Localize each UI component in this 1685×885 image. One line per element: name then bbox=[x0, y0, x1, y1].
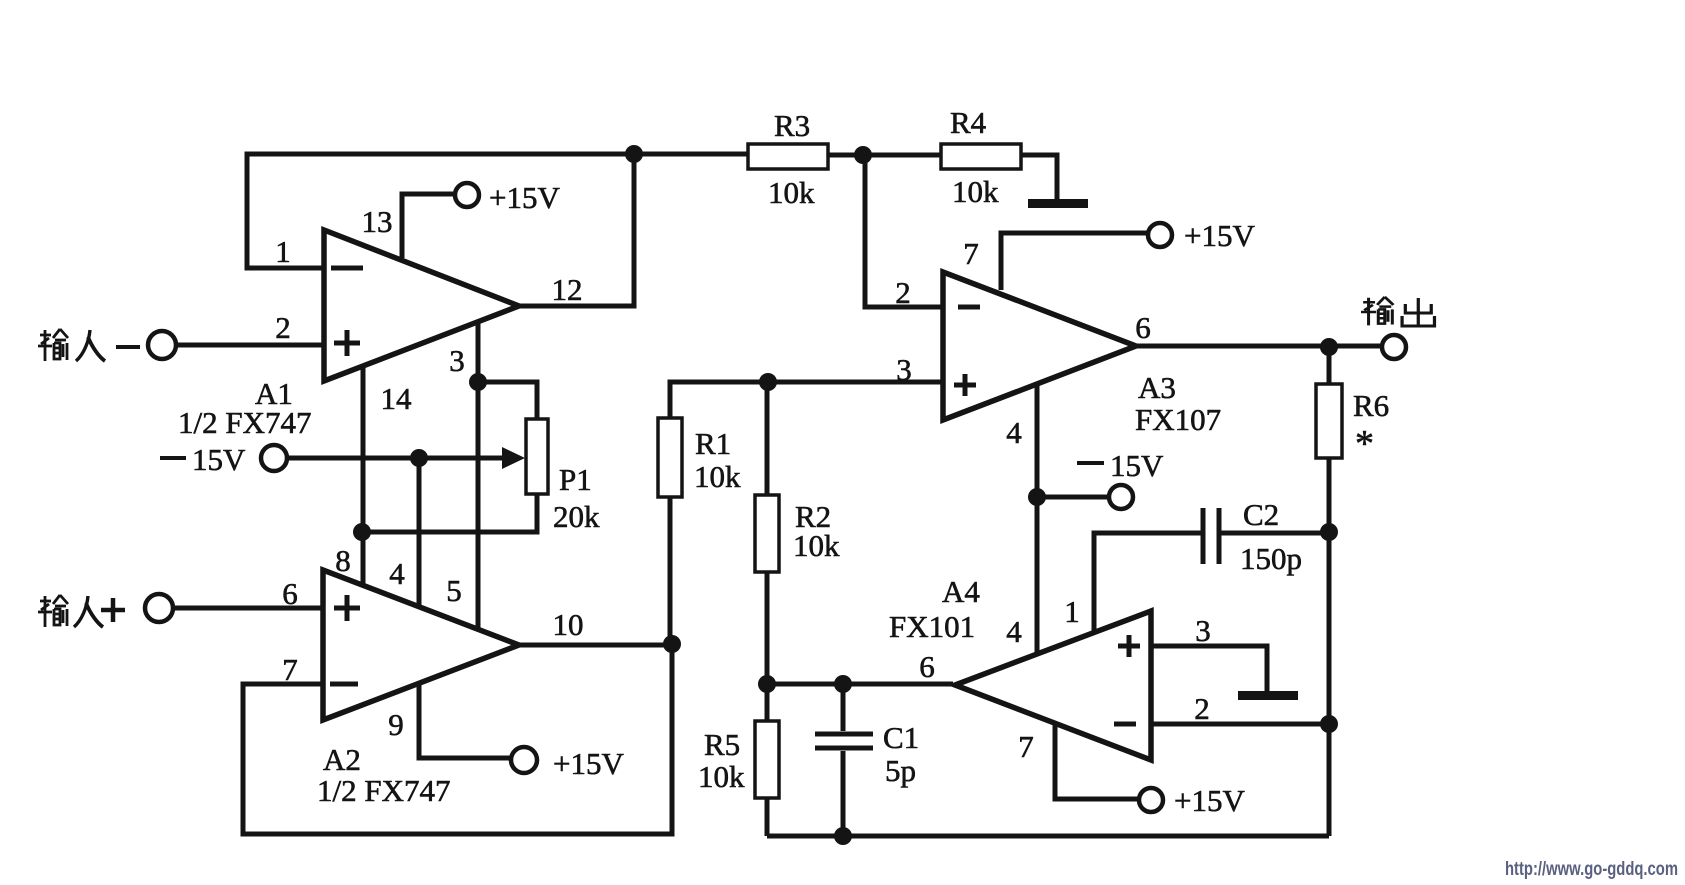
svg-text:4: 4 bbox=[1006, 614, 1022, 649]
svg-text:10k: 10k bbox=[694, 459, 741, 494]
svg-text:R3: R3 bbox=[774, 108, 810, 143]
svg-text:1/2 FX747: 1/2 FX747 bbox=[178, 405, 312, 440]
svg-text:4: 4 bbox=[389, 556, 405, 591]
svg-text:12: 12 bbox=[552, 272, 583, 307]
svg-text:3: 3 bbox=[449, 343, 465, 378]
svg-text:3: 3 bbox=[1195, 613, 1211, 648]
svg-text:9: 9 bbox=[388, 707, 404, 742]
svg-text:10k: 10k bbox=[793, 528, 840, 563]
svg-text:14: 14 bbox=[381, 381, 413, 416]
svg-text:3: 3 bbox=[896, 352, 912, 387]
svg-text:7: 7 bbox=[282, 652, 298, 687]
svg-text:2: 2 bbox=[275, 310, 291, 345]
svg-text:13: 13 bbox=[362, 204, 393, 239]
svg-text:*: * bbox=[1355, 423, 1374, 465]
svg-text:+15V: +15V bbox=[1184, 218, 1255, 253]
svg-text:1/2 FX747: 1/2 FX747 bbox=[317, 773, 451, 808]
svg-text:+15V: +15V bbox=[553, 746, 624, 781]
svg-text:15V: 15V bbox=[192, 442, 246, 477]
svg-text:10k: 10k bbox=[698, 759, 745, 794]
svg-text:10k: 10k bbox=[768, 175, 815, 210]
svg-text:5: 5 bbox=[446, 573, 462, 608]
svg-text:A4: A4 bbox=[942, 574, 980, 609]
svg-text:FX107: FX107 bbox=[1135, 402, 1221, 437]
svg-text:7: 7 bbox=[1018, 729, 1034, 764]
svg-text:R5: R5 bbox=[704, 727, 740, 762]
svg-text:+15V: +15V bbox=[1174, 783, 1245, 818]
svg-text:R6: R6 bbox=[1353, 388, 1389, 423]
svg-text:A2: A2 bbox=[323, 742, 361, 777]
svg-text:FX101: FX101 bbox=[889, 609, 975, 644]
svg-text:150p: 150p bbox=[1240, 541, 1302, 576]
svg-text:+15V: +15V bbox=[489, 180, 560, 215]
svg-text:2: 2 bbox=[1194, 691, 1210, 726]
svg-text:5p: 5p bbox=[885, 753, 916, 788]
svg-text:6: 6 bbox=[919, 649, 935, 684]
svg-text:2: 2 bbox=[895, 275, 911, 310]
svg-text:7: 7 bbox=[963, 236, 979, 271]
svg-text:C2: C2 bbox=[1243, 497, 1279, 532]
svg-text:C1: C1 bbox=[883, 720, 919, 755]
svg-text:R1: R1 bbox=[695, 426, 731, 461]
svg-text:20k: 20k bbox=[553, 499, 600, 534]
svg-text:R4: R4 bbox=[950, 105, 987, 140]
svg-text:A3: A3 bbox=[1138, 370, 1176, 405]
svg-text:4: 4 bbox=[1006, 415, 1022, 450]
svg-text:http://www.go-gddq.com: http://www.go-gddq.com bbox=[1505, 859, 1678, 880]
svg-text:15V: 15V bbox=[1110, 448, 1164, 483]
svg-text:10: 10 bbox=[553, 607, 584, 642]
svg-text:1: 1 bbox=[275, 234, 291, 269]
svg-text:8: 8 bbox=[335, 543, 351, 578]
svg-text:6: 6 bbox=[282, 576, 298, 611]
svg-text:P1: P1 bbox=[559, 462, 592, 497]
svg-text:1: 1 bbox=[1064, 594, 1080, 629]
svg-text:6: 6 bbox=[1135, 310, 1151, 345]
svg-text:10k: 10k bbox=[952, 174, 999, 209]
